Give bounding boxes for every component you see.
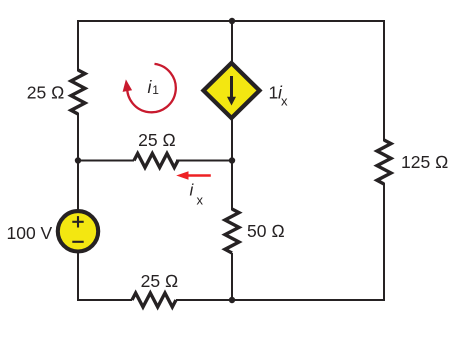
label i1: [148, 77, 160, 97]
resistor 125 ohm: [377, 140, 391, 184]
wire middle vertical top: [231, 20, 233, 64]
wire middle horizontal right: [176, 160, 232, 162]
resistor 50 ohm: [225, 209, 239, 253]
node left middle: [75, 157, 81, 163]
svg-text:25 Ω: 25 Ω: [141, 271, 179, 291]
svg-text:1: 1: [269, 83, 279, 103]
wire middle vertical mid: [231, 117, 233, 210]
wire left upper: [77, 20, 79, 71]
svg-text:i: i: [190, 181, 195, 200]
wire right lower: [383, 183, 385, 301]
node center: [229, 157, 235, 163]
svg-text:25 Ω: 25 Ω: [138, 130, 176, 150]
current arrow ix: [176, 171, 211, 180]
svg-text:x: x: [197, 193, 204, 208]
svg-text:25 Ω: 25 Ω: [27, 83, 65, 103]
resistor 25 ohm middle: [134, 154, 178, 168]
dependent current source 1ix: [204, 63, 260, 118]
node top middle: [229, 18, 235, 24]
wire left middle: [77, 113, 79, 210]
resistor 25 ohm bottom: [132, 293, 176, 307]
wire bottom: [77, 299, 132, 301]
svg-text:125 Ω: 125 Ω: [401, 152, 449, 172]
svg-text:x: x: [281, 94, 288, 109]
resistor 25 ohm left: [71, 70, 85, 114]
label ix: [190, 181, 204, 208]
wire middle vertical bottom: [231, 253, 233, 300]
node bottom middle: [229, 297, 235, 303]
wire top: [78, 20, 384, 22]
svg-text:1: 1: [152, 83, 159, 97]
label 1ix: [269, 83, 289, 109]
voltage source 100 V: [58, 211, 98, 251]
wire left lower: [77, 252, 79, 301]
wire middle horizontal: [78, 160, 134, 162]
wire bottom right: [176, 299, 385, 301]
wire right upper: [383, 20, 385, 141]
svg-text:50 Ω: 50 Ω: [247, 221, 285, 241]
svg-text:100 V: 100 V: [7, 223, 53, 243]
mesh current arrow i1: [123, 64, 176, 112]
